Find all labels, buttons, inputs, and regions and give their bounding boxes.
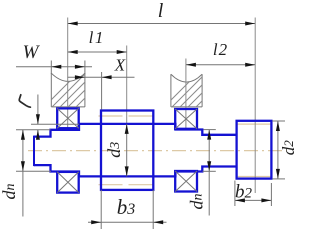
dimension dn-right line — [208, 130, 210, 216]
b3 extension lines — [100, 190, 102, 229]
right bearing axis line — [185, 59, 187, 131]
svg-text:d2: d2 — [279, 140, 298, 156]
dimension l line — [68, 23, 256, 25]
r upper extension line — [31, 123, 79, 125]
svg-text:l1: l1 — [89, 28, 104, 47]
d3 arrows — [125, 124, 129, 134]
left bearing housing block — [51, 73, 85, 107]
left housing hatching — [39, 70, 121, 112]
dimension l1 line — [68, 51, 127, 53]
shaft left end face — [33, 136, 35, 167]
dimension W extension lines — [50, 61, 52, 75]
main shaft centerline — [28, 150, 287, 152]
dn-right extensions — [204, 129, 216, 131]
dimension dn-left line — [22, 130, 24, 217]
dimension x arrows — [75, 75, 85, 79]
gear pitch line bottom — [99, 184, 156, 186]
d2 extensions — [272, 120, 285, 122]
dimension d2 line — [277, 121, 279, 179]
r lower extension line — [16, 129, 51, 131]
dimension x extension line — [101, 72, 103, 110]
shaft upper profile — [34, 124, 237, 137]
svg-text:l: l — [158, 0, 164, 22]
dimension W line — [16, 66, 92, 68]
gear axis line — [126, 46, 128, 124]
svg-text:X: X — [114, 56, 126, 75]
dn-left arrows — [21, 130, 25, 140]
bearing right upper — [175, 109, 197, 129]
coupling reference line top — [237, 123, 273, 125]
shaft end extension line — [254, 18, 256, 194]
dimension l1 arrows — [68, 50, 78, 54]
b2 dimension line and arrows — [235, 199, 272, 201]
svg-text:l2: l2 — [213, 40, 228, 59]
bearing left upper — [57, 108, 78, 128]
label r (rotated italic r drawn as path) — [19, 95, 30, 107]
dn-right arrows — [207, 130, 211, 140]
svg-text:dп: dп — [0, 184, 19, 200]
dimension x line — [68, 76, 135, 78]
dimension r lower line and arrow — [37, 130, 39, 140]
right housing hatching — [159, 70, 241, 112]
dimension W arrows — [51, 65, 61, 69]
d2 arrows — [276, 121, 280, 131]
b3 dimension line and arrows — [88, 221, 167, 223]
coupling reference line bottom — [237, 176, 273, 178]
dimension l2 arrows — [186, 63, 196, 67]
dimension l2 line — [186, 64, 255, 66]
dimension r upper line and arrow — [37, 95, 39, 125]
right bearing housing block — [171, 74, 202, 107]
svg-text:W: W — [23, 42, 41, 63]
b2 extension lines — [234, 181, 236, 207]
svg-text:b2: b2 — [235, 182, 253, 203]
left bearing axis line — [67, 18, 69, 130]
coupling block — [237, 121, 272, 179]
shaft lower profile — [34, 165, 237, 176]
gear pitch line top — [99, 115, 156, 117]
dn-left bottom extension — [16, 170, 51, 172]
gear wheel — [101, 111, 153, 190]
bearing right lower — [175, 171, 197, 192]
dimension l arrows — [68, 22, 78, 26]
dimension d3 line — [126, 124, 128, 176]
bearing left lower — [57, 172, 78, 193]
